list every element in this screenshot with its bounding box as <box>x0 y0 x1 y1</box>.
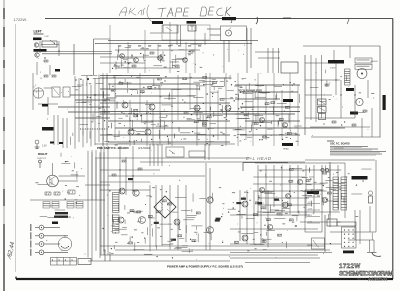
svg-text:(LS-5034): (LS-5034) <box>138 146 151 150</box>
svg-text:HEAD: HEAD <box>283 148 289 151</box>
svg-text:A4302544: A4302544 <box>368 277 388 282</box>
svg-text:1722W.: 1722W. <box>14 17 28 22</box>
svg-text:▮: ▮ <box>72 259 73 262</box>
svg-text:LINE: LINE <box>44 36 49 38</box>
svg-text:1.3K: 1.3K <box>42 146 47 148</box>
svg-text:NO 2-1: NO 2-1 <box>357 277 366 281</box>
svg-text:LEFT: LEFT <box>34 30 42 34</box>
svg-text:POWER AMP & POWER SUPPLY P.C.: POWER AMP & POWER SUPPLY P.C. BOARD (LS-… <box>167 265 243 269</box>
svg-text:RIGHT: RIGHT <box>38 152 48 156</box>
svg-text:OUTPUT: OUTPUT <box>37 158 47 160</box>
svg-text:OSC P.C. BOARD: OSC P.C. BOARD <box>330 143 350 146</box>
svg-text:PRE AMP P.C. BOARD: PRE AMP P.C. BOARD <box>97 146 129 150</box>
svg-text:▮: ▮ <box>59 259 60 262</box>
svg-text:50kHz: 50kHz <box>330 68 336 70</box>
svg-text:▮: ▮ <box>52 259 53 262</box>
svg-text:E+L HEAD: E+L HEAD <box>246 156 272 161</box>
svg-text:▮: ▮ <box>65 259 66 262</box>
svg-text:REC & PB AMPLIFIER: REC & PB AMPLIFIER <box>238 90 262 93</box>
svg-text:1722W: 1722W <box>339 263 361 270</box>
